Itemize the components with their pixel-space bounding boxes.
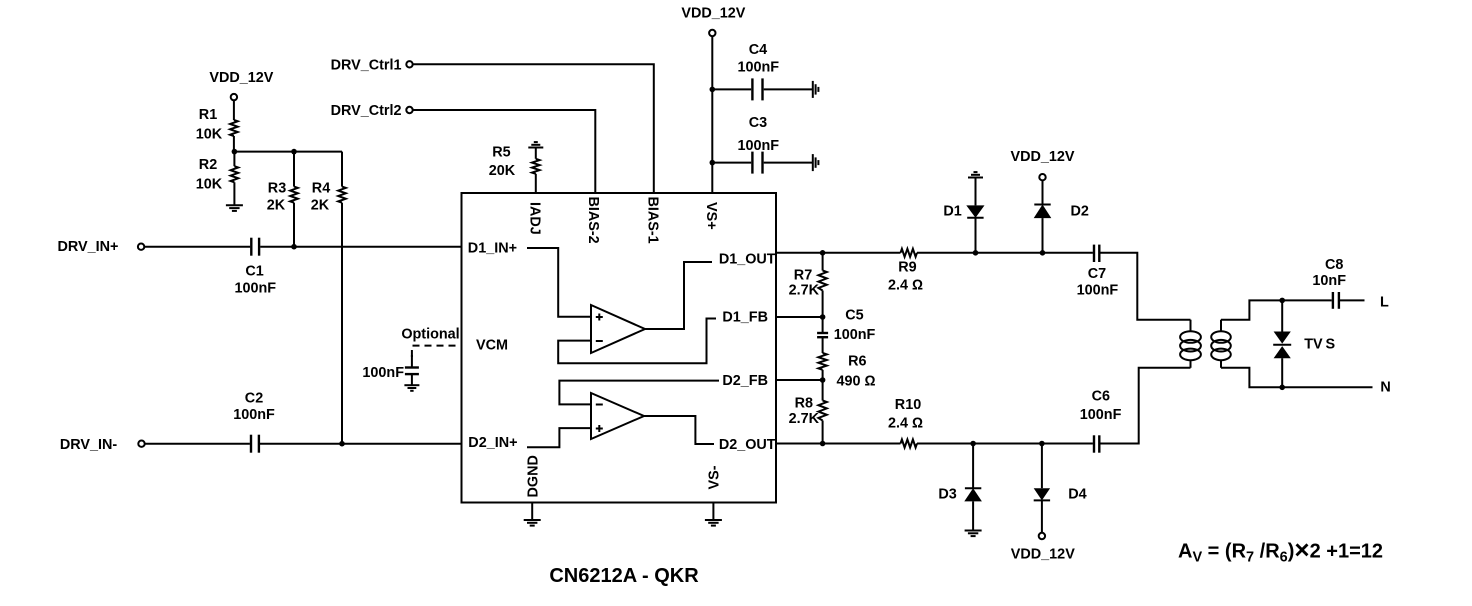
wire R10 to C6 xyxy=(917,443,1093,445)
wire secondary top to L line xyxy=(1221,300,1282,319)
svg-text:VS-: VS- xyxy=(707,465,723,489)
ground under VS- xyxy=(712,503,714,521)
svg-text:D1_FB: D1_FB xyxy=(722,310,768,326)
wire optional cap top lead xyxy=(411,355,413,368)
wire R3 top lead xyxy=(293,152,295,187)
wire D2_OUT line xyxy=(776,443,901,445)
svg-text:100nF: 100nF xyxy=(235,280,277,296)
op-amp A2 (bottom) xyxy=(591,393,644,439)
svg-text:R2: R2 xyxy=(199,157,217,173)
wire DRV_IN+ to C1 xyxy=(144,246,250,248)
wire R1 bottom to junction xyxy=(233,136,235,152)
svg-text:R3: R3 xyxy=(268,181,286,197)
wire R5 to IADJ pin xyxy=(535,174,537,193)
resistor R7 xyxy=(818,271,826,291)
svg-text:100nF: 100nF xyxy=(1077,282,1119,298)
wire R8 bottom xyxy=(822,421,824,444)
wire to C4 xyxy=(712,88,751,90)
ground under DGND xyxy=(531,503,533,521)
resistor R9 xyxy=(901,249,918,257)
svg-text:Optional: Optional xyxy=(401,327,459,343)
capacitor C4 xyxy=(752,78,762,100)
ground under R2 xyxy=(226,205,243,211)
wire D1_OUT line xyxy=(776,252,901,254)
wire D2_FB to opamp2 - xyxy=(559,381,719,405)
junction R3/DRV_IN+ xyxy=(291,244,297,250)
svg-text:VDD_12V: VDD_12V xyxy=(1011,546,1075,562)
svg-text:L: L xyxy=(1380,295,1389,311)
svg-text:2.4 Ω: 2.4 Ω xyxy=(888,416,923,432)
wire C3 to ground xyxy=(764,162,813,164)
svg-text:490 Ω: 490 Ω xyxy=(836,373,875,389)
capacitor C6 xyxy=(1094,435,1099,452)
svg-text:2K: 2K xyxy=(267,198,286,214)
svg-text:D2_IN+: D2_IN+ xyxy=(468,435,517,451)
transformer primary winding xyxy=(1180,320,1201,368)
junction D2_FB xyxy=(820,377,826,383)
svg-text:BIAS-2: BIAS-2 xyxy=(585,197,601,244)
ground (flipped) above R5 xyxy=(528,142,543,147)
wire DRV_IN- to C2 xyxy=(145,443,250,445)
wire R2 top lead xyxy=(233,152,235,167)
svg-text:VCM: VCM xyxy=(476,338,508,354)
ground (sideways) for C3 xyxy=(813,154,819,171)
svg-text:D2: D2 xyxy=(1070,204,1088,220)
svg-text:IADJ: IADJ xyxy=(527,202,543,235)
resistor R2 xyxy=(231,166,239,182)
svg-text:20K: 20K xyxy=(489,163,516,179)
wire L line to C8 xyxy=(1282,299,1332,301)
svg-text:10K: 10K xyxy=(196,127,223,143)
junction D2 xyxy=(1040,250,1046,256)
wire R4 bottom lead down to DRV_IN- line xyxy=(341,203,343,444)
junction D1 xyxy=(973,250,979,256)
svg-text:C3: C3 xyxy=(749,115,767,131)
svg-text:C1: C1 xyxy=(245,264,263,280)
wire VDD to VS+ pin xyxy=(711,36,713,193)
wire R9 to C7 xyxy=(917,252,1093,254)
junction R3 top xyxy=(291,149,297,155)
wire C2 to IC D2_IN+ xyxy=(260,443,462,445)
svg-text:100nF: 100nF xyxy=(834,327,876,343)
svg-text:DRV_Ctrl2: DRV_Ctrl2 xyxy=(331,103,402,119)
wire C7 to transformer primary top xyxy=(1100,253,1190,320)
ground optional cap xyxy=(404,385,419,391)
svg-text:DRV_IN+: DRV_IN+ xyxy=(58,239,119,255)
svg-text:R5: R5 xyxy=(492,144,510,160)
svg-text:R7: R7 xyxy=(794,268,812,284)
wire R7 top lead xyxy=(822,253,824,271)
svg-text:VDD_12V: VDD_12V xyxy=(681,6,745,22)
wire to C3 xyxy=(712,162,751,164)
TVS diode xyxy=(1281,300,1283,331)
svg-text:VS+: VS+ xyxy=(703,202,719,230)
wire DRV_Ctrl2 to BIAS-2 xyxy=(413,110,596,193)
svg-text:D1: D1 xyxy=(943,204,961,220)
svg-text:D4: D4 xyxy=(1068,487,1086,503)
op-amp A1 (top) xyxy=(591,305,645,353)
svg-text:R6: R6 xyxy=(848,354,866,370)
svg-text:D3: D3 xyxy=(938,487,956,503)
capacitor C8 xyxy=(1333,292,1339,309)
svg-text:VDD_12V: VDD_12V xyxy=(1011,149,1075,165)
wire opamp1 output to D1_OUT xyxy=(645,262,712,329)
resistor R6 xyxy=(818,353,826,370)
resistor R5 xyxy=(532,159,540,174)
wire secondary bottom to N line xyxy=(1221,368,1282,388)
svg-text:C4: C4 xyxy=(749,42,767,58)
svg-text:C8: C8 xyxy=(1325,257,1343,273)
junction R7 top xyxy=(820,250,826,256)
diode D3 xyxy=(972,444,974,489)
svg-text:BIAS-1: BIAS-1 xyxy=(645,197,661,244)
svg-text:R9: R9 xyxy=(898,260,916,276)
wire R6 bottom xyxy=(822,370,824,401)
wire C4 to ground xyxy=(764,88,813,90)
wire R2 bottom lead xyxy=(233,182,235,205)
svg-text:D2_FB: D2_FB xyxy=(722,373,768,389)
svg-text:CN6212A - QKR: CN6212A - QKR xyxy=(549,565,699,587)
wire optional cap to ground xyxy=(411,374,413,385)
junction C3 xyxy=(710,160,716,166)
wire VDD to R1 xyxy=(233,100,235,120)
svg-text:C5: C5 xyxy=(845,308,863,324)
wire D2_FB line xyxy=(776,379,823,381)
wire DRV_Ctrl1 to BIAS-1 xyxy=(413,64,654,193)
svg-text:R8: R8 xyxy=(795,396,813,412)
svg-text:2.7K: 2.7K xyxy=(789,411,820,427)
svg-text:100nF: 100nF xyxy=(738,138,780,154)
svg-text:TV S: TV S xyxy=(1304,337,1335,353)
ground (sideways) for C4 xyxy=(813,81,819,98)
ground under D3 xyxy=(965,531,982,537)
svg-text:R1: R1 xyxy=(199,107,217,123)
svg-text:R10: R10 xyxy=(895,397,921,413)
capacitor C1 xyxy=(251,238,259,256)
svg-text:2.4 Ω: 2.4 Ω xyxy=(888,278,923,294)
svg-text:10K: 10K xyxy=(196,177,223,193)
capacitor C2 xyxy=(251,435,259,453)
svg-text:D1_OUT: D1_OUT xyxy=(719,251,776,267)
svg-text:2K: 2K xyxy=(311,198,330,214)
terminal VDD_12V top xyxy=(709,30,715,36)
terminal DRV_IN+ xyxy=(138,244,144,250)
junction R4/DRV_IN- xyxy=(339,441,345,447)
terminal DRV_Ctrl2 xyxy=(406,107,412,113)
wire dashed optional to VCM xyxy=(412,346,462,357)
junction D1_FB xyxy=(820,314,826,320)
resistor R1 xyxy=(230,120,238,136)
wire R3 bottom lead xyxy=(293,203,295,247)
svg-text:10nF: 10nF xyxy=(1312,273,1346,289)
svg-text:100nF: 100nF xyxy=(1080,407,1122,423)
ground (flipped) above D1 xyxy=(968,172,983,177)
svg-text:DGND: DGND xyxy=(525,455,541,497)
junction D3 xyxy=(970,441,976,447)
svg-text:100nF: 100nF xyxy=(738,59,780,75)
svg-text:D1_IN+: D1_IN+ xyxy=(468,241,517,257)
wire ground to R5 xyxy=(535,148,537,159)
wire D1_IN+ to opamp1 + xyxy=(527,248,591,317)
wire C5 to R6 xyxy=(822,337,824,353)
capacitor C3 xyxy=(752,152,762,174)
diode D4 xyxy=(1041,444,1043,489)
junction C4 xyxy=(710,87,716,93)
capacitor C5 xyxy=(817,333,828,337)
wire D1_FB line xyxy=(776,316,823,318)
wire R4 top lead xyxy=(341,152,343,187)
wire opamp2 output to D2_OUT xyxy=(644,416,714,444)
svg-text:DRV_IN-: DRV_IN- xyxy=(60,437,118,453)
junction R8 bottom xyxy=(820,441,826,447)
capacitor C7 xyxy=(1094,245,1099,262)
wire C6 to transformer primary bottom xyxy=(1100,368,1190,444)
svg-text:C6: C6 xyxy=(1092,389,1110,405)
svg-text:VDD_12V: VDD_12V xyxy=(209,70,273,86)
svg-text:2.7K: 2.7K xyxy=(789,282,820,298)
svg-text:R4: R4 xyxy=(312,181,330,197)
svg-text:N: N xyxy=(1380,380,1390,396)
svg-text:D2_OUT: D2_OUT xyxy=(719,437,776,453)
resistor R3 xyxy=(290,187,298,203)
junction D4 xyxy=(1039,441,1045,447)
wire C8 to L xyxy=(1340,299,1365,301)
wire N line xyxy=(1282,386,1372,388)
op-amp U1 IC box CN6212A xyxy=(462,193,777,503)
wire bias bus horizontal xyxy=(234,151,342,153)
junction TVS bottom xyxy=(1279,385,1285,391)
terminal VDD_12V top-left xyxy=(231,94,237,100)
junction R1/R2 xyxy=(232,149,238,155)
terminal DRV_Ctrl1 xyxy=(406,61,412,67)
svg-text:C7: C7 xyxy=(1088,266,1106,282)
transformer secondary winding xyxy=(1211,320,1231,368)
resistor R8 xyxy=(818,401,826,421)
svg-text:100nF: 100nF xyxy=(233,407,275,423)
wire R7 bottom xyxy=(822,291,824,334)
svg-text:100nF: 100nF xyxy=(362,365,404,381)
capacitor 100nF optional xyxy=(405,368,419,375)
resistor R10 xyxy=(901,440,918,448)
svg-text:C2: C2 xyxy=(245,390,263,406)
wire opamp1 - feedback to D1_FB xyxy=(558,319,716,364)
wire D2_IN+ to opamp2 + xyxy=(527,428,591,447)
svg-text:DRV_Ctrl1: DRV_Ctrl1 xyxy=(331,57,402,73)
resistor R4 xyxy=(338,187,346,203)
wire C1 to IC D1_IN+ xyxy=(260,246,461,248)
junction TVS top xyxy=(1279,298,1285,304)
terminal DRV_IN- xyxy=(138,441,144,447)
